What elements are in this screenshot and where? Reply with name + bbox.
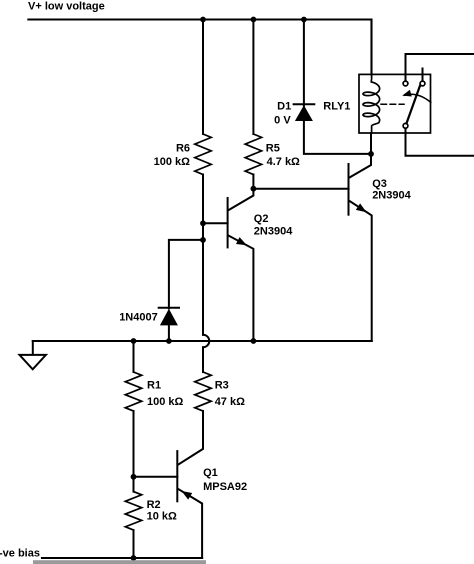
svg-text:2N3904: 2N3904 <box>372 190 411 202</box>
svg-text:100 kΩ: 100 kΩ <box>147 396 184 408</box>
svg-text:4.7 kΩ: 4.7 kΩ <box>267 156 300 168</box>
svg-text:10 kΩ: 10 kΩ <box>147 511 177 523</box>
svg-text:Q3: Q3 <box>372 178 387 190</box>
svg-text:MPSA92: MPSA92 <box>203 481 247 493</box>
svg-text:R6: R6 <box>176 142 190 154</box>
svg-text:R1: R1 <box>147 380 161 392</box>
svg-text:-ve bias: -ve bias <box>0 547 40 559</box>
svg-text:Q2: Q2 <box>254 213 269 225</box>
svg-text:V+ low voltage: V+ low voltage <box>28 0 105 12</box>
svg-text:R2: R2 <box>147 499 161 511</box>
svg-text:RLY1: RLY1 <box>323 101 350 113</box>
svg-text:100 kΩ: 100 kΩ <box>154 156 191 168</box>
svg-text:D1: D1 <box>277 100 291 112</box>
svg-text:Q1: Q1 <box>203 467 218 479</box>
svg-text:R3: R3 <box>215 380 229 392</box>
svg-text:R5: R5 <box>266 142 280 154</box>
svg-text:1N4007: 1N4007 <box>119 312 158 324</box>
svg-text:0 V: 0 V <box>274 114 291 126</box>
svg-text:47 kΩ: 47 kΩ <box>215 396 245 408</box>
svg-text:2N3904: 2N3904 <box>254 226 293 238</box>
